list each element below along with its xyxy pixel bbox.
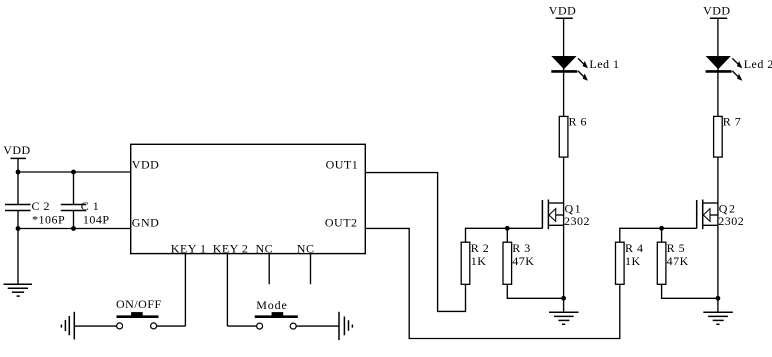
svg-text:NC: NC (297, 242, 315, 256)
svg-text:2302: 2302 (564, 214, 590, 228)
svg-text:R 3: R 3 (512, 241, 531, 255)
svg-text:R 7: R 7 (723, 114, 742, 128)
svg-text:KEY 1: KEY 1 (171, 242, 207, 256)
svg-text:OUT1: OUT1 (326, 158, 359, 172)
svg-text:R 2: R 2 (471, 241, 490, 255)
svg-text:R 6: R 6 (569, 114, 588, 128)
svg-text:2302: 2302 (718, 214, 744, 228)
svg-text:Led 1: Led 1 (589, 57, 619, 71)
svg-text:C 1: C 1 (81, 199, 100, 213)
svg-text:KEY 2: KEY 2 (213, 242, 249, 256)
svg-text:ON/OFF: ON/OFF (116, 297, 162, 311)
svg-text:C 2: C 2 (32, 199, 51, 213)
svg-text:47K: 47K (512, 254, 534, 268)
svg-text:1K: 1K (471, 254, 487, 268)
svg-text:VDD: VDD (3, 143, 31, 157)
svg-text:GND: GND (132, 215, 160, 229)
svg-text:R 5: R 5 (667, 241, 686, 255)
svg-text:VDD: VDD (703, 3, 731, 17)
svg-text:*106P: *106P (32, 213, 65, 227)
svg-text:R 4: R 4 (625, 241, 644, 255)
svg-text:OUT2: OUT2 (325, 215, 358, 229)
svg-text:VDD: VDD (132, 158, 160, 172)
svg-text:Led 2: Led 2 (744, 57, 772, 71)
svg-text:1K: 1K (625, 254, 641, 268)
svg-text:Mode: Mode (256, 298, 288, 312)
svg-text:47K: 47K (667, 254, 689, 268)
svg-text:VDD: VDD (549, 3, 577, 17)
svg-text:104P: 104P (83, 213, 110, 227)
svg-text:NC: NC (256, 242, 274, 256)
